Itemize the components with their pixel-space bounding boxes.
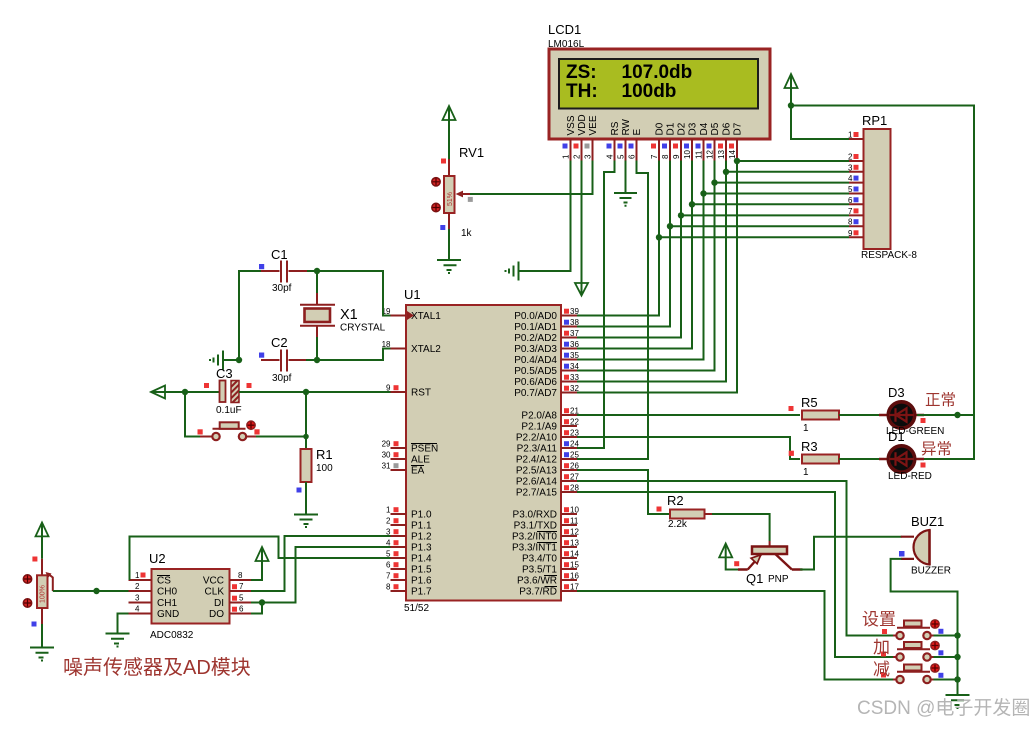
svg-text:3: 3	[584, 154, 593, 159]
RP1 pin numbers and squares	[848, 131, 853, 238]
svg-text:P0.5/AD5: P0.5/AD5	[514, 366, 557, 377]
push button SET	[882, 620, 943, 639]
svg-text:C2: C2	[271, 335, 288, 350]
svg-text:32: 32	[570, 384, 579, 393]
wire U2 GND to ground	[118, 614, 129, 634]
svg-text:ALE: ALE	[411, 455, 430, 466]
wire XTAL1 loop: C1 to XTAL1	[306, 271, 391, 316]
capacitor C1 30pf	[259, 247, 307, 294]
svg-text:P1.0: P1.0	[411, 510, 432, 521]
ground (R1)	[294, 515, 318, 528]
svg-text:8: 8	[238, 571, 243, 580]
junction power rail	[788, 102, 794, 108]
svg-text:13: 13	[570, 539, 579, 548]
svg-text:2.2k: 2.2k	[668, 519, 688, 530]
svg-text:7: 7	[239, 582, 244, 591]
svg-text:C3: C3	[216, 366, 233, 381]
junction C3/button node	[182, 389, 188, 395]
ground (RW)	[614, 193, 637, 206]
svg-text:25: 25	[570, 451, 579, 460]
svg-text:P1.4: P1.4	[411, 554, 432, 565]
svg-text:12: 12	[570, 528, 579, 537]
svg-text:24: 24	[570, 440, 579, 449]
svg-text:P3.2/INT0: P3.2/INT0	[512, 532, 557, 543]
svg-text:D3: D3	[688, 122, 699, 135]
svg-text:12: 12	[706, 150, 715, 159]
junction C1/X1/XTAL1	[314, 268, 320, 274]
svg-text:8: 8	[386, 583, 391, 592]
svg-text:GND: GND	[157, 609, 179, 620]
svg-text:4: 4	[606, 154, 615, 159]
buzzer BUZ1	[899, 514, 951, 577]
LED D3 green	[879, 385, 944, 437]
junction D6/RP1	[723, 169, 729, 175]
wire D7 column to U1 P0.7 and RP1 pin2	[577, 161, 849, 393]
wire U2 CLK to U1 P1.2	[251, 536, 391, 591]
wire Q1 collector to buzzer	[800, 537, 902, 570]
LCD pin numbers 1-14 (rotated)	[562, 150, 738, 159]
wire RV1 bottom to ground	[448, 213, 450, 229]
svg-text:P1.6: P1.6	[411, 576, 432, 587]
svg-text:51/52: 51/52	[404, 603, 429, 614]
wire C2 left to rotated ground	[224, 359, 239, 361]
wire D0 column to U1 P0.0 and RP1 pin9	[577, 161, 849, 316]
wire reset button to R1 top	[256, 392, 306, 449]
svg-text:XTAL2: XTAL2	[411, 344, 441, 355]
svg-text:6: 6	[848, 196, 853, 205]
wire U1 P2.2 to R3	[577, 437, 800, 459]
svg-text:1: 1	[562, 154, 571, 159]
svg-text:D1: D1	[666, 122, 677, 135]
junction button/R1	[303, 434, 309, 440]
svg-text:RV1: RV1	[459, 145, 484, 160]
U1 INT0/INT1/WR/RD overlines	[537, 532, 557, 587]
svg-text:异常: 异常	[921, 440, 952, 458]
wire U2 DO tie to DI	[251, 603, 262, 614]
crystal X1	[300, 305, 386, 334]
svg-text:Q1: Q1	[746, 571, 763, 586]
wire U1 P2.0 to R5	[577, 414, 800, 416]
svg-text:10: 10	[570, 506, 579, 515]
svg-text:8: 8	[661, 154, 670, 159]
push button PLUS	[881, 641, 943, 660]
svg-text:35: 35	[570, 351, 579, 360]
svg-text:5: 5	[239, 594, 244, 603]
microcontroller U1 (8051)	[404, 287, 561, 614]
svg-text:D4: D4	[699, 122, 710, 135]
svg-text:P1.2: P1.2	[411, 532, 432, 543]
junction X1/C2	[314, 357, 320, 363]
power arrow down (VDD)	[575, 283, 588, 296]
svg-text:100db: 100db	[622, 81, 677, 102]
svg-text:30: 30	[382, 451, 391, 460]
svg-text:P0.0/AD0: P0.0/AD0	[514, 311, 557, 322]
svg-text:D3: D3	[888, 385, 905, 400]
svg-text:1: 1	[135, 571, 140, 580]
svg-text:P0.6/AD6: P0.6/AD6	[514, 377, 557, 388]
wire VSS to ground	[519, 161, 571, 272]
junction D3 row	[954, 412, 960, 418]
wire buzzer to button rail	[891, 559, 958, 695]
wire R3 to D1	[839, 458, 886, 460]
svg-text:U1: U1	[404, 287, 421, 302]
power arrow left (RST VCC)	[151, 386, 165, 399]
wire C2 right to XTAL2	[306, 349, 391, 361]
svg-text:BUZ1: BUZ1	[911, 514, 944, 529]
svg-text:TH:: TH:	[566, 81, 598, 102]
svg-text:15: 15	[570, 561, 579, 570]
LED D1 red	[879, 429, 932, 482]
junction D4/RP1	[700, 190, 706, 196]
svg-text:6: 6	[386, 561, 391, 570]
svg-text:加: 加	[873, 638, 890, 657]
svg-text:X1: X1	[340, 307, 358, 323]
svg-text:CH0: CH0	[157, 587, 177, 598]
svg-text:RS: RS	[610, 121, 621, 135]
svg-text:CH1: CH1	[157, 598, 177, 609]
svg-text:P0.7/AD7: P0.7/AD7	[514, 388, 557, 399]
wire U1 P2.6 to button SET	[577, 481, 894, 636]
wire D3 to power rail	[917, 414, 974, 416]
svg-text:5: 5	[848, 185, 853, 194]
power arrow up (RV1)	[443, 106, 456, 120]
svg-text:BUZZER: BUZZER	[911, 566, 951, 577]
wire U1 P2.7 to button PLUS	[577, 492, 894, 657]
svg-text:7: 7	[386, 572, 391, 581]
svg-text:2: 2	[573, 154, 582, 159]
wire power to pot	[41, 524, 43, 559]
ground (RV1)	[437, 260, 461, 273]
svg-text:D0: D0	[655, 122, 666, 135]
svg-text:P1.5: P1.5	[411, 565, 432, 576]
svg-text:P3.3/INT1: P3.3/INT1	[512, 543, 557, 554]
LCD pin names VSS VDD VEE RS RW E D0-D7 (rotated)	[566, 114, 744, 135]
ground (rotated, C2)	[210, 351, 223, 370]
svg-text:100: 100	[316, 463, 333, 474]
svg-text:P1.3: P1.3	[411, 543, 432, 554]
svg-text:100%: 100%	[40, 585, 47, 603]
svg-text:VCC: VCC	[203, 576, 224, 587]
push button (reset)	[198, 421, 260, 440]
junction RST/R1	[303, 389, 309, 395]
svg-text:3: 3	[135, 594, 140, 603]
wire U1 P3.7 to button MINUS	[577, 591, 894, 680]
wire D4 column to U1 P0.4 and RP1 pin5	[577, 161, 849, 360]
svg-text:D1: D1	[888, 429, 905, 444]
svg-text:D5: D5	[710, 122, 721, 135]
U1 left pin names	[411, 311, 441, 598]
svg-text:P2.0/A8: P2.0/A8	[521, 411, 557, 422]
svg-text:P0.4/AD4: P0.4/AD4	[514, 355, 557, 366]
svg-text:1: 1	[803, 423, 809, 434]
svg-text:正常: 正常	[925, 391, 956, 409]
wire D5 column to U1 P0.5 and RP1 pin4	[577, 161, 849, 371]
svg-text:RESPACK-8: RESPACK-8	[861, 250, 917, 261]
ground (U2)	[106, 634, 130, 647]
svg-text:R2: R2	[667, 493, 684, 508]
wire U2 VCC to power	[251, 548, 262, 580]
junction C2 left	[236, 357, 242, 363]
ground (pot)	[30, 648, 54, 661]
svg-text:30pf: 30pf	[272, 283, 292, 294]
RV1 wiper arrow	[458, 193, 470, 195]
RP1 pin leads	[849, 139, 864, 237]
svg-text:1: 1	[803, 467, 809, 478]
junction DI/DO	[259, 599, 265, 605]
LCD pin leads 1-14	[571, 139, 738, 161]
junction rail SET	[954, 632, 960, 638]
wire VCC arrow to C3 node	[152, 391, 220, 393]
svg-text:11: 11	[695, 150, 704, 159]
U1 left pin numbers	[382, 307, 391, 592]
U1 right pin squares	[564, 309, 569, 590]
svg-text:P3.6/WR: P3.6/WR	[517, 576, 557, 587]
svg-text:D6: D6	[722, 122, 733, 135]
svg-text:6: 6	[628, 154, 637, 159]
svg-text:减: 减	[873, 660, 890, 679]
capacitor C3 0.1uF	[204, 366, 252, 416]
svg-text:PNP: PNP	[768, 574, 789, 585]
svg-text:8: 8	[848, 218, 853, 227]
transistor Q1 PNP	[734, 547, 802, 587]
svg-text:29: 29	[382, 440, 391, 449]
svg-text:LED-RED: LED-RED	[888, 471, 932, 482]
svg-text:2: 2	[135, 582, 140, 591]
wire RW to ground	[625, 161, 627, 194]
U2 pin names	[157, 576, 179, 621]
wire D6 column to U1 P0.6 and RP1 pin3	[577, 161, 849, 382]
svg-text:38: 38	[570, 318, 579, 327]
wire U2 CS to U1 P1.4	[130, 537, 391, 581]
resistor R1 100	[297, 447, 334, 493]
svg-text:RW: RW	[621, 118, 632, 135]
svg-text:14: 14	[728, 150, 737, 159]
svg-text:7: 7	[848, 207, 853, 216]
svg-text:1: 1	[386, 506, 391, 515]
svg-text:P1.1: P1.1	[411, 521, 432, 532]
noise sensor potentiometer	[23, 575, 47, 608]
wire X1 top lead	[316, 271, 318, 294]
svg-text:R5: R5	[801, 395, 818, 410]
svg-text:P0.3/AD3: P0.3/AD3	[514, 344, 557, 355]
wire D1 column to U1 P0.1 and RP1 pin8	[577, 161, 849, 327]
svg-text:22: 22	[570, 418, 579, 427]
wire R1 to ground	[305, 482, 307, 515]
wire node to reset button	[185, 392, 201, 437]
svg-text:P3.0/RXD: P3.0/RXD	[513, 510, 557, 521]
svg-text:P0.2/AD2: P0.2/AD2	[514, 333, 557, 344]
wire C3 right to RST	[239, 391, 391, 393]
LCD pin state squares	[563, 144, 735, 149]
U1 right pin leads	[561, 316, 577, 592]
wire D3 column to U1 P0.3 and RP1 pin6	[577, 161, 849, 349]
wire U2 DI to U1 P1.3	[251, 547, 391, 603]
svg-text:6: 6	[239, 605, 244, 614]
junction rail MINUS	[954, 676, 960, 682]
svg-text:VEE: VEE	[588, 115, 599, 135]
svg-text:VSS: VSS	[566, 115, 577, 135]
ground (button rail)	[946, 695, 970, 708]
svg-text:33: 33	[570, 373, 579, 382]
svg-text:2: 2	[848, 153, 853, 162]
svg-text:P2.3/A11: P2.3/A11	[517, 444, 558, 455]
svg-text:P2.2/A10: P2.2/A10	[516, 433, 558, 444]
svg-text:P0.1/AD1: P0.1/AD1	[514, 322, 557, 333]
potentiometer RV1 1k	[432, 145, 484, 239]
svg-text:34: 34	[570, 362, 579, 371]
U1 left pin leads	[391, 316, 407, 592]
svg-text:30pf: 30pf	[272, 373, 292, 384]
U1 PSEN/EA overlines	[411, 444, 437, 466]
svg-text:DI: DI	[214, 598, 224, 609]
svg-text:XTAL1: XTAL1	[411, 311, 441, 322]
wire pot wiper to U2 CH0	[53, 590, 129, 592]
push button MINUS	[881, 664, 943, 683]
svg-text:P3.1/TXD: P3.1/TXD	[514, 521, 557, 532]
wire power to RV1	[448, 107, 450, 159]
LCD display LCD1 LM016L	[548, 22, 770, 139]
svg-text:107.0db: 107.0db	[622, 62, 693, 83]
U2 pin numbers and squares	[135, 571, 140, 614]
svg-text:4: 4	[135, 605, 140, 614]
U1 right pin numbers	[570, 307, 579, 592]
svg-text:2: 2	[386, 517, 391, 526]
svg-text:0.1uF: 0.1uF	[216, 405, 242, 416]
wire E to U1 P2.4	[577, 161, 648, 460]
junction wiper wire	[93, 588, 99, 594]
wires buttons right to rail	[934, 636, 958, 680]
svg-text:PSEN: PSEN	[411, 444, 438, 455]
svg-text:CLK: CLK	[205, 587, 225, 598]
wire rail down to D1	[917, 415, 974, 459]
wire VDD to power (down arrow)	[581, 161, 583, 295]
svg-text:51%: 51%	[447, 192, 454, 206]
power arrow up (Q1 emitter)	[719, 544, 732, 558]
U2 pin leads	[129, 580, 252, 614]
svg-text:7: 7	[650, 154, 659, 159]
junction rail PLUS	[954, 654, 960, 660]
svg-text:3: 3	[848, 163, 853, 172]
svg-text:ADC0832: ADC0832	[150, 630, 194, 641]
svg-text:16: 16	[570, 572, 579, 581]
svg-text:CS: CS	[157, 576, 171, 587]
svg-text:D2: D2	[677, 122, 688, 135]
power arrow up (U2 VCC)	[256, 547, 269, 561]
svg-text:31: 31	[382, 462, 391, 471]
svg-text:U2: U2	[149, 551, 166, 566]
resistor pack RP1 RESPACK-8	[861, 113, 917, 261]
svg-text:VDD: VDD	[577, 114, 588, 135]
svg-text:9: 9	[672, 154, 681, 159]
svg-text:R3: R3	[801, 439, 818, 454]
svg-text:C1: C1	[271, 247, 288, 262]
svg-text:P3.7/RD: P3.7/RD	[519, 587, 557, 598]
svg-text:11: 11	[570, 517, 579, 526]
junction D2/RP1	[678, 212, 684, 218]
wire RS to U1 P2.3	[577, 161, 615, 449]
wire R2 to Q1 base	[705, 513, 713, 515]
U1 left pin squares	[394, 385, 399, 589]
svg-text:4: 4	[848, 174, 853, 183]
junction D0/RP1	[656, 234, 662, 240]
adc U2 ADC0832	[149, 551, 230, 641]
svg-text:36: 36	[570, 340, 579, 349]
svg-text:9: 9	[848, 229, 853, 238]
svg-text:D7: D7	[733, 122, 744, 135]
svg-text:13: 13	[717, 150, 726, 159]
wire Q1 emitter to power	[726, 545, 738, 570]
junction D1/RP1	[667, 223, 673, 229]
power arrow up (RP1 rail VCC)	[785, 74, 798, 88]
svg-text:P2.1/A9: P2.1/A9	[521, 422, 557, 433]
svg-text:ZS:: ZS:	[566, 62, 597, 83]
svg-text:5: 5	[617, 154, 626, 159]
svg-text:EA: EA	[411, 466, 425, 477]
svg-text:CSDN @电子开发圈: CSDN @电子开发圈	[857, 697, 1030, 719]
U1 right pin names	[512, 311, 557, 598]
svg-text:P3.4/T0: P3.4/T0	[522, 554, 557, 565]
svg-text:DO: DO	[209, 609, 224, 620]
wire D2 column to U1 P0.2 and RP1 pin7	[577, 161, 849, 338]
resistor R3 1	[801, 439, 839, 478]
ground (rotated, VSS)	[506, 262, 519, 281]
svg-text:P2.4/A12: P2.4/A12	[516, 455, 558, 466]
svg-text:RP1: RP1	[862, 113, 887, 128]
svg-text:R1: R1	[316, 447, 333, 462]
svg-text:LCD1: LCD1	[548, 22, 581, 37]
wire C1 left to C2 left	[239, 271, 262, 360]
svg-text:E: E	[632, 129, 643, 136]
wire X1 bottom lead	[316, 326, 318, 338]
wire VEE to RV1 wiper	[470, 161, 593, 195]
svg-text:设置: 设置	[862, 610, 896, 629]
svg-text:噪声传感器及AD模块: 噪声传感器及AD模块	[63, 656, 251, 679]
svg-text:37: 37	[570, 329, 579, 338]
svg-text:RST: RST	[411, 388, 431, 399]
svg-text:P2.7/A15: P2.7/A15	[516, 488, 558, 499]
svg-text:14: 14	[570, 550, 579, 559]
svg-text:10: 10	[683, 150, 692, 159]
svg-text:1k: 1k	[461, 228, 473, 239]
svg-text:39: 39	[570, 307, 579, 316]
capacitor C2 30pf	[259, 335, 307, 384]
U1 XTAL1 clock marker	[407, 311, 414, 320]
svg-text:P3.5/T1: P3.5/T1	[522, 565, 557, 576]
resistor R5 1	[801, 395, 839, 434]
svg-text:P2.6/A14: P2.6/A14	[516, 477, 558, 488]
power arrow up (mic pot)	[36, 523, 49, 537]
svg-text:P1.7: P1.7	[411, 587, 432, 598]
wire U1 P2.5 to R2	[577, 470, 670, 514]
junction D7/RP1	[734, 158, 740, 164]
pot wiper arrow	[48, 574, 53, 591]
resistor R2 2.2k	[667, 493, 705, 530]
wire RP1 pin1 to power rail	[791, 75, 974, 415]
svg-text:P2.5/A13: P2.5/A13	[516, 466, 558, 477]
wire R5 to D3	[839, 414, 886, 416]
wire pot bottom to ground	[41, 608, 43, 624]
svg-text:CRYSTAL: CRYSTAL	[340, 323, 386, 334]
junction D3/RP1	[689, 201, 695, 207]
junction D5/RP1	[711, 179, 717, 185]
